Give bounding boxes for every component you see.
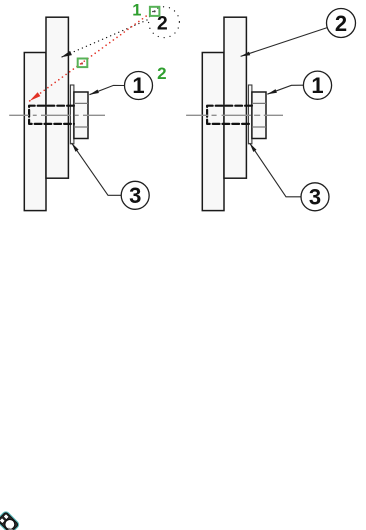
wire centerline left view [9,114,105,116]
balloon 1 (left view) [125,72,153,100]
plate B (right view, right plate) [224,17,246,178]
svg-text:2: 2 [157,64,166,83]
nut hex flat lines (left view) [74,103,88,127]
balloon 3 (left view) [121,181,149,209]
svg-text:1: 1 [311,73,323,98]
hidden bolt shaft dashed outline (right view) [207,106,252,124]
green markup square 1 [150,7,160,16]
plate A (right view, left plate) [202,53,224,211]
mouse cursor icon [0,511,19,530]
balloon 2 (right view) [327,9,356,38]
svg-text:1: 1 [132,2,141,20]
nut / bolt head (left view) [74,92,88,139]
ghost balloon 2 dotted circle (left view) [149,7,180,38]
ghost leader dotted line (left view balloon 2 old position) [62,19,149,57]
svg-text:3: 3 [129,183,141,208]
balloon 3 leader (left view) [72,143,122,195]
balloon 3 (right view) [301,183,329,211]
wire centerline right view [186,114,283,116]
green markup square 2 [78,59,88,68]
washer (right view) [248,85,252,144]
plate B (left view, right plate) [46,17,68,178]
nut / bolt head (right view) [252,92,266,139]
ghost leader arrowhead on plate B [61,51,72,58]
svg-text:1: 1 [132,73,144,98]
balloon 2 leader (right view) [241,28,328,57]
red compare arrowhead [30,92,41,101]
hidden bolt shaft dashed outline (left view) [29,106,74,124]
balloon 1 (right view) [303,71,331,99]
red compare dotted leader [30,14,149,101]
balloon 3 leader (right view) [250,143,301,197]
balloon 1 leader (right view) [267,85,303,94]
washer (left view) [70,85,74,144]
svg-text:2: 2 [335,11,347,36]
nut hex flat lines (right view) [252,103,266,127]
svg-text:3: 3 [309,185,321,210]
balloon 1 leader (left view) [89,85,124,94]
plate A (left view, left plate) [24,53,46,211]
